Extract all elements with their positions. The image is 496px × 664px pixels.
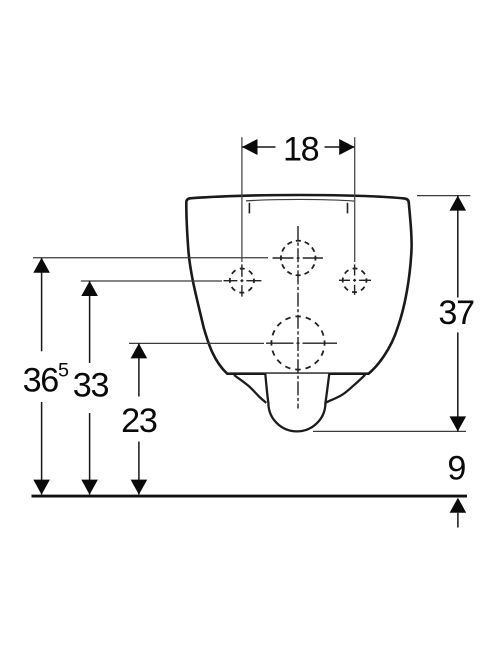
c2 horizontal crosshair [224,280,262,282]
c3 vertical crosshair [354,264,356,295]
right mounting hole c3 [343,268,367,292]
svg-text:18: 18 [283,131,319,169]
dim 23 arrow down [131,480,148,495]
dim 37 vertical line upper [457,196,459,298]
center line (vertical dash-dot) [297,226,299,409]
svg-text:9: 9 [447,450,466,488]
dim 37 vertical line lower [457,332,459,431]
dim 9 arrow tail [457,513,459,528]
dim 36.5 vertical line upper [41,258,43,352]
dim 36.5 arrow up [33,258,50,273]
dim 18 arrow left [242,139,258,155]
dim 23 leader [129,342,264,344]
svg-text:5: 5 [58,360,69,382]
dim 37 arrow down [450,416,467,431]
outlet hole circle c4 [271,316,324,369]
dim 36.5 leader [33,257,268,259]
dim 23 vertical line lower [138,442,140,495]
dim 33 leader [81,280,222,282]
dim 36.5 vertical line lower [41,402,43,494]
flush hole circle c1 [281,241,316,276]
dim 9 arrow up below ground [450,498,467,513]
dim 37 arrow up [450,196,467,211]
svg-text:23: 23 [121,402,157,440]
skirt arc right [326,375,366,403]
svg-text:33: 33 [73,366,109,404]
bowl body outline [186,195,411,374]
c4 horizontal crosshair [266,342,337,344]
ground line [32,495,468,498]
svg-text:37: 37 [438,294,474,332]
dim 18 extension line left [241,137,243,262]
right rim tick [347,203,349,214]
dim 18 extension line right [354,137,356,262]
dim 33 arrow up [81,281,98,296]
dim 33 vertical line upper [89,281,91,363]
dim 33 vertical line lower [89,413,91,494]
skirt arc left [234,375,266,403]
dim 18 arrow right [339,139,355,155]
c1 horizontal crosshair [273,257,323,259]
c3 horizontal crosshair [339,279,371,281]
dim 37 / 9 extension line bottom [313,430,466,432]
dim 23 vertical line upper [138,343,140,396]
c2 vertical crosshair [241,264,243,296]
dim 18 line right segment [325,146,355,148]
dim 37 extension line top [417,195,470,197]
dim 33 arrow down [81,480,98,495]
dim 36.5 arrow down [33,480,50,495]
left mounting hole c2 [230,269,254,293]
outlet spigot (tongue) [265,374,329,432]
dim 23 arrow up [131,343,148,358]
bowl top rim inner line [246,199,355,201]
svg-text:36: 36 [23,361,59,399]
left rim tick [248,203,250,214]
dim 18 line left segment [242,146,276,148]
